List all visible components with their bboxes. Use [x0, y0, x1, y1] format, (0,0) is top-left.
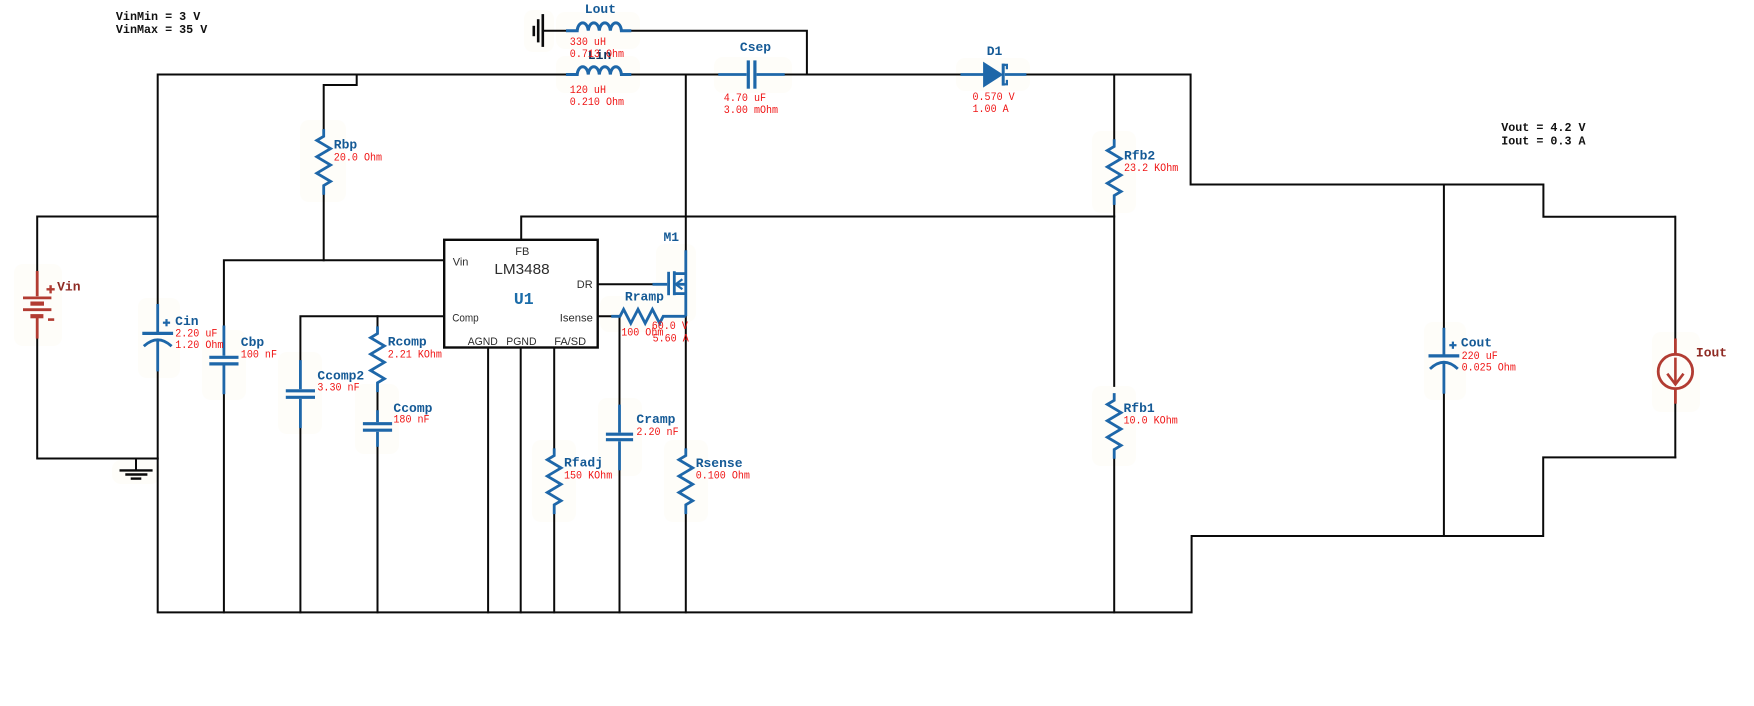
svg-text:2.21 KOhm: 2.21 KOhm	[388, 350, 443, 362]
svg-text:Cin: Cin	[175, 314, 199, 329]
svg-text:AGND: AGND	[468, 336, 498, 348]
svg-text:Iout = 0.3 A: Iout = 0.3 A	[1501, 135, 1586, 149]
svg-text:VinMax = 35 V: VinMax = 35 V	[116, 23, 207, 37]
svg-text:Cbp: Cbp	[241, 335, 265, 350]
svg-text:Rcomp: Rcomp	[388, 334, 427, 349]
svg-text:Rfb2: Rfb2	[1124, 148, 1155, 163]
svg-text:Rramp: Rramp	[625, 290, 664, 305]
svg-text:100 nF: 100 nF	[241, 350, 277, 362]
svg-text:Vout = 4.2 V: Vout = 4.2 V	[1501, 121, 1585, 135]
svg-text:20.0 Ohm: 20.0 Ohm	[334, 153, 383, 165]
svg-text:0.570 V: 0.570 V	[973, 92, 1016, 104]
svg-text:Comp: Comp	[452, 312, 479, 324]
svg-text:180 nF: 180 nF	[393, 414, 429, 426]
svg-text:0.210 Ohm: 0.210 Ohm	[570, 97, 625, 109]
svg-text:Rsense: Rsense	[696, 456, 743, 471]
svg-text:23.2 KOhm: 23.2 KOhm	[1124, 163, 1179, 175]
svg-text:3.30 nF: 3.30 nF	[317, 383, 359, 395]
svg-text:3.00 mOhm: 3.00 mOhm	[724, 105, 779, 117]
svg-text:Rfadj: Rfadj	[564, 456, 603, 471]
svg-text:4.70 uF: 4.70 uF	[724, 93, 766, 105]
svg-text:330 uH: 330 uH	[570, 37, 606, 49]
svg-text:Cout: Cout	[1461, 336, 1492, 351]
svg-text:2.20 nF: 2.20 nF	[636, 427, 678, 439]
svg-text:60.0 V: 60.0 V	[652, 321, 689, 333]
svg-text:10.0 KOhm: 10.0 KOhm	[1124, 415, 1179, 427]
svg-text:0.713 Ohm: 0.713 Ohm	[570, 49, 625, 61]
svg-text:Ccomp2: Ccomp2	[317, 368, 364, 383]
svg-text:DR: DR	[577, 279, 593, 291]
svg-text:Isense: Isense	[560, 312, 593, 324]
svg-text:150 KOhm: 150 KOhm	[564, 471, 613, 483]
svg-text:Cramp: Cramp	[636, 412, 675, 427]
svg-text:Rbp: Rbp	[334, 138, 358, 153]
svg-text:PGND: PGND	[506, 336, 536, 348]
svg-text:FB: FB	[515, 246, 529, 258]
svg-text:0.100 Ohm: 0.100 Ohm	[696, 471, 751, 483]
svg-text:FA/SD: FA/SD	[554, 336, 586, 348]
svg-text:Vin: Vin	[57, 279, 81, 294]
svg-text:M1: M1	[664, 230, 680, 245]
svg-text:1.20 Ohm: 1.20 Ohm	[175, 340, 224, 352]
svg-text:5.60 A: 5.60 A	[653, 333, 690, 345]
svg-text:1.00 A: 1.00 A	[973, 104, 1010, 116]
svg-text:LM3488: LM3488	[494, 261, 549, 278]
svg-text:Csep: Csep	[740, 40, 771, 55]
svg-text:Lout: Lout	[585, 2, 616, 17]
svg-text:Iout: Iout	[1696, 346, 1727, 361]
svg-text:Vin: Vin	[453, 256, 469, 268]
svg-text:Rfb1: Rfb1	[1124, 401, 1155, 416]
svg-text:D1: D1	[987, 44, 1003, 59]
svg-text:U1: U1	[514, 291, 534, 310]
svg-text:0.025 Ohm: 0.025 Ohm	[1462, 362, 1517, 374]
svg-text:VinMin = 3 V: VinMin = 3 V	[116, 10, 200, 24]
svg-text:120 uH: 120 uH	[570, 85, 606, 97]
svg-text:2.20 uF: 2.20 uF	[175, 329, 217, 341]
svg-text:220 uF: 220 uF	[1462, 351, 1498, 363]
